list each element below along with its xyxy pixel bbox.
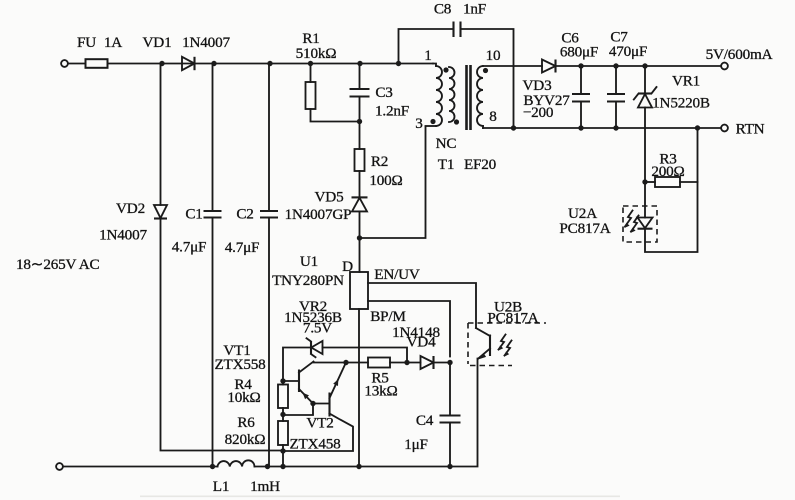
svg-text:13kΩ: 13kΩ: [364, 383, 397, 400]
svg-text:1N5220B: 1N5220B: [652, 95, 710, 112]
svg-text:ZTX558: ZTX558: [214, 356, 266, 373]
svg-text:D: D: [342, 258, 353, 275]
svg-text:100Ω: 100Ω: [369, 172, 402, 189]
svg-text:C2: C2: [236, 206, 253, 223]
svg-text:1mH: 1mH: [250, 478, 280, 495]
svg-text:200Ω: 200Ω: [651, 163, 684, 180]
svg-text:1nF: 1nF: [463, 1, 486, 18]
svg-text:1N4007GP: 1N4007GP: [285, 206, 352, 223]
svg-text:PC817A: PC817A: [487, 310, 538, 327]
svg-text:EN/UV: EN/UV: [374, 266, 420, 283]
svg-text:1A: 1A: [104, 34, 122, 51]
svg-text:C8: C8: [434, 1, 452, 18]
svg-text:RTN: RTN: [736, 121, 765, 138]
svg-text:8: 8: [489, 108, 497, 125]
svg-text:470μF: 470μF: [609, 43, 647, 60]
svg-text:18∼265V AC: 18∼265V AC: [16, 256, 100, 273]
svg-text:510kΩ: 510kΩ: [296, 45, 337, 62]
svg-text:1μF: 1μF: [404, 436, 428, 453]
svg-text:3: 3: [415, 115, 422, 132]
svg-text:−200: −200: [523, 104, 554, 121]
svg-text:7.5V: 7.5V: [303, 320, 332, 337]
svg-text:BP/M: BP/M: [370, 308, 406, 325]
svg-text:PC817A: PC817A: [559, 220, 610, 237]
svg-text:VD4: VD4: [407, 334, 437, 351]
svg-text:C1: C1: [185, 206, 202, 223]
svg-text:4.7μF: 4.7μF: [225, 239, 260, 256]
svg-text:1: 1: [424, 47, 431, 64]
svg-text:ZTX458: ZTX458: [289, 436, 341, 453]
svg-text:1N4007: 1N4007: [99, 227, 147, 244]
svg-text:VT2: VT2: [306, 415, 333, 432]
svg-text:1N4007: 1N4007: [182, 34, 230, 51]
svg-text:C3: C3: [375, 84, 392, 101]
svg-text:L1: L1: [213, 478, 229, 495]
svg-text:NC: NC: [436, 135, 457, 152]
svg-text:680μF: 680μF: [560, 44, 598, 61]
svg-text:TNY280PN: TNY280PN: [272, 272, 344, 289]
svg-text:820kΩ: 820kΩ: [225, 431, 266, 448]
svg-text:10kΩ: 10kΩ: [227, 389, 260, 406]
svg-text:1.2nF: 1.2nF: [375, 103, 409, 120]
svg-text:R2: R2: [371, 153, 388, 170]
svg-text:5V/600mA: 5V/600mA: [706, 46, 773, 63]
svg-text:VD1: VD1: [143, 34, 172, 51]
svg-text:VD2: VD2: [116, 200, 145, 217]
svg-text:10: 10: [486, 47, 501, 64]
svg-text:C4: C4: [416, 412, 434, 429]
svg-text:U1: U1: [300, 253, 318, 270]
svg-text:T1: T1: [438, 156, 454, 173]
svg-text:VR1: VR1: [672, 73, 700, 90]
svg-text:FU: FU: [77, 34, 96, 51]
svg-text:VD5: VD5: [315, 189, 344, 206]
svg-text:EF20: EF20: [464, 156, 497, 173]
svg-text:R6: R6: [237, 414, 255, 431]
svg-text:4.7μF: 4.7μF: [172, 239, 207, 256]
